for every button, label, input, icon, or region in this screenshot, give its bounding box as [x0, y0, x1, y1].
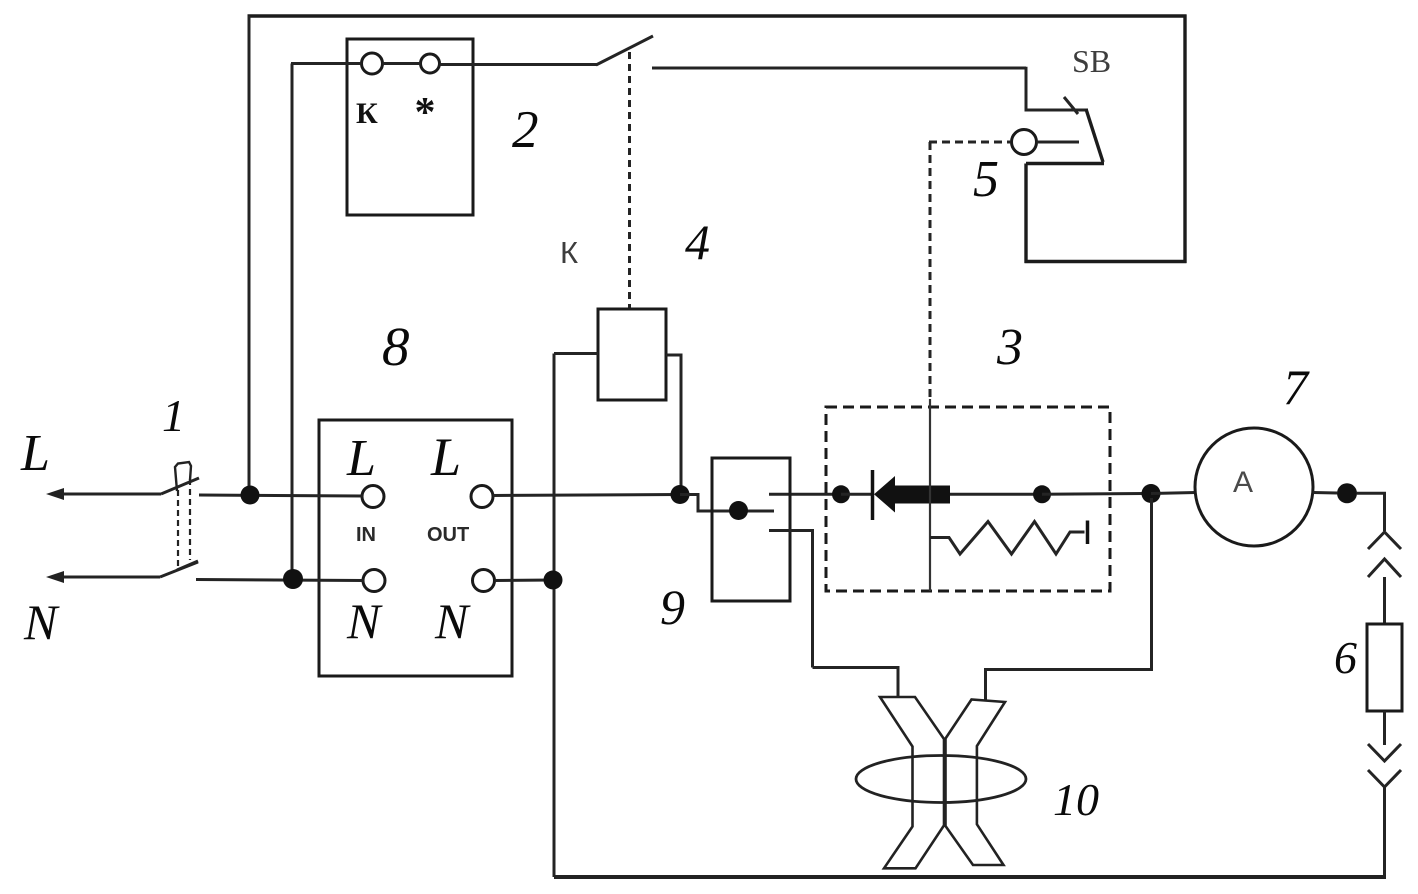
- svg-text:L: L: [346, 430, 376, 487]
- node dot E: [1142, 484, 1161, 503]
- wire N fixed contact to N IN: [196, 580, 364, 581]
- svg-text:К: К: [560, 235, 578, 270]
- svg-text:6: 6: [1334, 632, 1357, 683]
- wire into K terminal: [291, 62, 362, 65]
- terminal N OUT circle: [473, 570, 495, 592]
- mains L arrow: [52, 493, 161, 496]
- wire from * terminal to switch 4: [440, 63, 598, 66]
- wire between terminals: [383, 62, 421, 65]
- terminal L IN circle: [362, 486, 384, 508]
- wire tall vertical from bracket to bottom wire: [553, 354, 556, 878]
- wire chevrons to resistor 6: [1383, 577, 1386, 624]
- svg-text:2: 2: [512, 101, 539, 159]
- up chevron 1: [1368, 532, 1401, 549]
- wire node E to ammeter: [1151, 493, 1196, 494]
- svg-text:*: *: [415, 90, 436, 136]
- switch 1 link hook top: [175, 462, 191, 491]
- switch 4 blade: [596, 36, 653, 65]
- node dot C: [832, 485, 850, 503]
- up chevron 2: [1368, 559, 1401, 577]
- terminal L OUT circle: [471, 486, 493, 508]
- relay coil box 4: [598, 309, 666, 400]
- wire node D to node E: [1042, 492, 1151, 496]
- terminal * circle of box 2: [421, 54, 440, 73]
- wire SB bottom horizontal: [1025, 260, 1187, 263]
- node dot on L wire: [241, 486, 260, 505]
- svg-text:N: N: [346, 593, 383, 649]
- wire N OUT to vertical: [495, 579, 555, 583]
- element 10 left ribbon: [880, 697, 944, 868]
- node dot B inside box 9: [729, 501, 748, 520]
- down chevron 1: [1368, 744, 1401, 761]
- down chevron 2: [1368, 770, 1401, 787]
- svg-text:10: 10: [1053, 774, 1099, 825]
- svg-text:A: A: [1233, 466, 1253, 499]
- node circle 5 pilot contact: [1012, 130, 1037, 155]
- wire diode lead to node D: [950, 493, 1042, 496]
- control unit box 8: [319, 420, 512, 676]
- wire dashed vertical from node 5 down: [929, 142, 932, 399]
- mains N arrow: [52, 576, 160, 579]
- wire SB lower contact: [1026, 162, 1104, 165]
- SB tick mark: [1064, 97, 1078, 114]
- wire from circle 5 to blade: [1037, 141, 1080, 144]
- svg-text:L: L: [20, 425, 50, 482]
- svg-text:4: 4: [685, 214, 710, 270]
- wire resistor 6 down: [1383, 711, 1386, 745]
- node dot on N wire: [283, 569, 303, 589]
- wire bottom long return: [554, 875, 1386, 879]
- resistor 6 body: [1367, 624, 1402, 711]
- terminal K circle of box 2: [362, 53, 383, 74]
- dashed mechanical link right line: [189, 479, 191, 560]
- diode cathode bar: [871, 470, 875, 520]
- svg-text:1: 1: [162, 390, 185, 441]
- wire bracket left of coil 4: [554, 352, 598, 355]
- switch 1 L blade: [161, 478, 199, 494]
- element 10 ellipse: [856, 756, 1026, 803]
- wire left border vertical down to L node: [248, 16, 251, 495]
- element 10 right ribbon: [946, 700, 1006, 866]
- switch SB blade: [1086, 109, 1103, 162]
- wire L fixed contact to L IN: [199, 495, 363, 496]
- wire left lead of element 10: [813, 668, 899, 699]
- svg-text:N: N: [23, 594, 60, 650]
- dashed box 3: [826, 407, 1110, 591]
- diode thick body bar: [895, 486, 950, 504]
- box 2 energy meter: [347, 39, 473, 215]
- svg-text:9: 9: [660, 579, 685, 635]
- svg-text:К: К: [356, 97, 378, 130]
- wire bracket right of coil 4: [666, 355, 681, 495]
- wire node C to diode: [841, 493, 872, 496]
- node dot N OUT junction: [544, 571, 563, 590]
- wire lower stub of box 9 down: [769, 531, 813, 668]
- wire upper stub of box 9 to node C: [769, 493, 841, 496]
- wire vertical from K terminal down to N node: [291, 64, 294, 580]
- wire ammeter to node F: [1313, 491, 1337, 495]
- solid center vertical in box 3: [929, 399, 931, 591]
- wire dashed horizontal to circle 5: [929, 141, 1011, 144]
- wire right lead of element 10: [986, 498, 1152, 700]
- switch 1 link hook bottom: [177, 561, 198, 570]
- svg-text:L: L: [430, 427, 461, 487]
- wire step down into box 9: [680, 495, 774, 512]
- svg-text:IN: IN: [356, 524, 376, 546]
- terminal N IN circle: [363, 570, 385, 592]
- wire top border of outer loop: [248, 14, 1187, 17]
- svg-text:SB: SB: [1072, 43, 1111, 79]
- wire from switch 4 to SB: [652, 67, 1026, 70]
- wire SB upper contact: [1026, 67, 1088, 110]
- resistor zigzag in box 3: [930, 522, 1085, 555]
- node dot D: [1033, 485, 1051, 503]
- wire right border of outer loop: [1183, 15, 1186, 264]
- wire down to bottom: [1383, 787, 1386, 879]
- diode triangle: [874, 476, 895, 513]
- ammeter 7 circle: [1195, 428, 1313, 546]
- node dot A: [671, 485, 690, 504]
- dashed link from switch 4 to relay coil 4: [628, 52, 631, 309]
- svg-text:7: 7: [1283, 359, 1310, 415]
- resistor end bar: [1086, 521, 1090, 545]
- switch 1 N blade: [160, 562, 198, 577]
- svg-text:8: 8: [382, 316, 410, 377]
- wire L OUT to node A: [493, 495, 680, 496]
- node dot F: [1337, 483, 1357, 503]
- thermal switch box 9: [712, 458, 790, 601]
- svg-text:N: N: [434, 593, 471, 649]
- svg-text:OUT: OUT: [427, 524, 469, 546]
- dashed mechanical link left line: [177, 490, 179, 569]
- svg-text:5: 5: [973, 151, 999, 208]
- svg-text:3: 3: [996, 319, 1023, 376]
- wire node F to right corner and down: [1357, 493, 1385, 531]
- wire SB left vertical: [1024, 164, 1027, 264]
